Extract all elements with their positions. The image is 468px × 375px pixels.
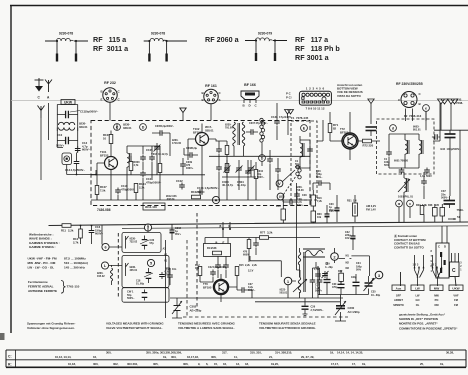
svg-text:16,: 16, xyxy=(93,355,97,359)
note bottom view text xyxy=(337,83,363,98)
svg-text:PO: PO xyxy=(435,298,439,302)
svg-text:C304: C304 xyxy=(151,153,158,156)
transistor T72 BF200 mixer xyxy=(344,135,357,148)
wire C307 xyxy=(234,132,262,156)
transistor T101 BF332 xyxy=(105,157,118,170)
svg-text:E: E xyxy=(101,98,103,102)
svg-text:14, 14, 14,35,: 14, 14, 14,35, xyxy=(346,351,363,355)
antenna terminal symbol mid xyxy=(180,108,186,115)
svg-text:600V: 600V xyxy=(243,254,249,257)
svg-text:RF 161: RF 161 xyxy=(205,84,217,88)
resistor R28 boxed xyxy=(440,208,445,217)
svg-text:R28: R28 xyxy=(428,204,433,207)
capacitor F2 bottom right xyxy=(424,168,430,175)
svg-text:40-12,7p: 40-12,7p xyxy=(158,153,168,156)
svg-text:GO: GO xyxy=(415,298,419,302)
antenna coil L1 9230-078 xyxy=(45,38,88,61)
svg-text:4,7p/500V~: 4,7p/500V~ xyxy=(71,168,86,172)
double terminal symbols right xyxy=(438,99,459,108)
LW tuned circuit box xyxy=(122,256,169,288)
svg-text:25,: 25, xyxy=(420,362,424,366)
CW1 trimmer box xyxy=(122,288,169,303)
svg-text:RF 232: RF 232 xyxy=(104,81,116,85)
wire socket RF230 drops xyxy=(406,109,413,122)
svg-text:50%: 50% xyxy=(356,269,362,272)
svg-text:435.01: 435.01 xyxy=(130,269,138,272)
antenna coil L2 9230-078 xyxy=(144,38,187,61)
svg-text:Ferritantenne: Ferritantenne xyxy=(28,280,48,284)
wire feed to oscillator xyxy=(250,256,281,277)
svg-text:VOLTMETRO ELETTRONICO GRUNDIG.: VOLTMETRO ELETTRONICO GRUNDIG. xyxy=(259,326,316,330)
wire test6 to MW box xyxy=(109,224,148,247)
svg-text:1001-P0L.01: 1001-P0L.01 xyxy=(398,195,414,199)
resistor R13 xyxy=(213,251,222,255)
wire C32 xyxy=(352,226,354,250)
svg-text:1 2 3 4 5 6: 1 2 3 4 5 6 xyxy=(306,87,325,91)
svg-text:A: A xyxy=(215,199,218,203)
svg-text:.00/134: .00/134 xyxy=(166,198,175,201)
capacitor C11 xyxy=(57,111,77,118)
svg-text:220: 220 xyxy=(435,204,440,207)
capacitor C20 xyxy=(317,180,324,186)
wire under T70 xyxy=(170,287,343,302)
svg-text:RF 2060 a: RF 2060 a xyxy=(205,35,240,44)
svg-text:2,2k: 2,2k xyxy=(245,264,250,267)
antenna terminal above mixer xyxy=(368,99,374,106)
svg-text:7436-086: 7436-086 xyxy=(97,208,111,212)
wire tuning bottom cluster xyxy=(318,248,376,295)
capacitor C110 xyxy=(115,188,121,195)
switch position note xyxy=(399,313,458,331)
svg-text:13,: 13, xyxy=(236,362,240,366)
filter F2 capacitor C1 xyxy=(386,150,392,157)
svg-text:470p/500V~: 470p/500V~ xyxy=(146,180,162,184)
svg-text:D: D xyxy=(142,126,145,130)
svg-text:MW -MW - PO - OM: MW -MW - PO - OM xyxy=(28,261,56,265)
svg-text:UKW: UKW xyxy=(64,100,73,104)
wire F2 to right xyxy=(426,103,440,141)
variable capacitor C200 AC xyxy=(335,298,346,318)
svg-text:220: 220 xyxy=(369,144,374,148)
test point 3 xyxy=(375,271,383,279)
svg-text:305,: 305, xyxy=(153,362,159,366)
svg-text:40-12,7p: 40-12,7p xyxy=(222,183,233,187)
svg-text:50%~: 50%~ xyxy=(316,176,323,179)
ground arrow symbol xyxy=(35,78,44,92)
capacitor C112 xyxy=(267,157,273,164)
ferrite rod coil xyxy=(110,268,112,281)
svg-text:100p/500V~: 100p/500V~ xyxy=(447,147,462,151)
svg-text:R15: R15 xyxy=(239,264,244,267)
feedthrough capacitor stack xyxy=(366,127,377,136)
label UKW box xyxy=(61,100,75,105)
padder capacitor C25r xyxy=(317,278,323,285)
transistor T102 BF183 xyxy=(196,133,209,146)
svg-text:503,01: 503,01 xyxy=(280,292,288,295)
wire bottom row FM box xyxy=(91,193,310,201)
border frame left xyxy=(10,6,12,334)
svg-text:Aus: Aus xyxy=(396,286,402,290)
wire local FM cluster xyxy=(127,146,160,200)
resistor R16 boxed xyxy=(311,195,316,206)
resistor R108 xyxy=(225,164,229,173)
capacitor C30r plates xyxy=(324,277,331,287)
svg-text:310, 310,: 310, 310, xyxy=(250,351,262,355)
svg-text:82: 82 xyxy=(333,126,337,130)
svg-text:35V+: 35V+ xyxy=(175,233,181,236)
svg-text:306,: 306, xyxy=(211,355,217,359)
svg-text:14,14,: 14,14, xyxy=(337,351,345,355)
CW1 capacitor xyxy=(142,290,148,301)
capacitor C16 xyxy=(89,228,95,235)
wire T102 xyxy=(188,124,216,191)
wire L to LW box xyxy=(109,265,122,285)
svg-text:6001-706.00: 6001-706.00 xyxy=(394,160,409,163)
table row C upper numbers xyxy=(106,351,454,359)
resistor R11 inline on bus xyxy=(62,224,71,228)
resistor R32 boxed xyxy=(339,273,344,281)
resistor R30 boxed xyxy=(311,211,316,222)
brace and part number 7761-110 xyxy=(61,281,66,294)
resistor R31 boxed xyxy=(353,203,358,216)
wire T101 connections xyxy=(97,124,117,201)
svg-text:3,3μ/400V~: 3,3μ/400V~ xyxy=(161,125,175,128)
svg-text:gezeichnete Stellung „Gerät Au: gezeichnete Stellung „Gerät Aus“ xyxy=(399,313,446,317)
test point D lower xyxy=(259,155,266,162)
svg-text:C102: C102 xyxy=(176,179,183,183)
variable capacitor C102 AE xyxy=(172,300,182,316)
capacitor C26b xyxy=(288,199,295,205)
electrolytic C30b xyxy=(325,211,330,219)
wave bands heading text xyxy=(29,232,60,249)
switch contact group LW xyxy=(414,255,425,286)
wire R14 C21 xyxy=(249,238,256,263)
label 9014/138 boxed xyxy=(204,244,231,257)
svg-text:C101 1,5p/500V~: C101 1,5p/500V~ xyxy=(197,186,219,190)
wire socket RF161 drop xyxy=(210,104,212,121)
input cell rails upper xyxy=(57,105,77,132)
svg-text:R72: R72 xyxy=(363,144,369,148)
capacitor C33b small xyxy=(315,272,321,279)
svg-text:35V+: 35V+ xyxy=(329,209,335,212)
wire R10 C16 junctions xyxy=(81,226,103,245)
svg-text:6,8k: 6,8k xyxy=(422,204,427,207)
wire C24 C25 xyxy=(218,256,226,278)
measurement note french xyxy=(178,322,236,331)
trimmer component with adjuster xyxy=(62,153,72,165)
antenna symbol C lower xyxy=(38,106,45,119)
feedthrough capacitor C37 xyxy=(444,196,456,208)
svg-text:7,2k: 7,2k xyxy=(317,200,322,203)
filter F1 capacitor C1 xyxy=(307,147,313,154)
svg-text:R32: R32 xyxy=(338,270,343,273)
wire right column xyxy=(426,121,460,222)
svg-text:9,: 9, xyxy=(198,362,201,366)
resistor R104 xyxy=(134,184,138,193)
svg-text:VALVE VOLTMETER WITHOUT SIGNAL: VALVE VOLTMETER WITHOUT SIGNAL. xyxy=(106,326,163,330)
svg-text:9230-078: 9230-078 xyxy=(59,32,73,36)
oscillator coil L101 xyxy=(127,153,131,167)
svg-text:314, 308,310,: 314, 308,310, xyxy=(275,351,292,355)
svg-text:P C!: P C! xyxy=(286,96,292,100)
svg-text:BF 166: BF 166 xyxy=(244,83,256,87)
svg-text:RF 230V/250/255: RF 230V/250/255 xyxy=(396,82,423,86)
trimmer C103 xyxy=(224,166,231,173)
band names column LW xyxy=(415,294,420,307)
wire from terminal xyxy=(182,115,184,121)
svg-text:FERRITE AERIAL: FERRITE AERIAL xyxy=(28,285,54,289)
capacitor C26 xyxy=(302,303,309,313)
svg-text:R14/138: R14/138 xyxy=(207,247,217,250)
svg-text:16,: 16, xyxy=(223,362,227,366)
svg-text:2,2k: 2,2k xyxy=(139,185,145,189)
filter F2 box xyxy=(377,119,435,174)
capacitor C31r plates xyxy=(338,281,345,291)
svg-text:7509-: 7509- xyxy=(457,208,464,212)
svg-text:51: 51 xyxy=(457,215,461,219)
svg-text:10,12, 13,14,: 10,12, 13,14, xyxy=(55,355,72,359)
band switch label UKW xyxy=(449,285,463,291)
svg-text:17,17,: 17,17, xyxy=(331,362,339,366)
svg-text:300,: 300, xyxy=(93,362,99,366)
test point V xyxy=(276,180,283,187)
svg-text:d: d xyxy=(392,127,394,131)
svg-text:300,: 300, xyxy=(106,351,112,355)
wire wiper dashed IV xyxy=(284,176,297,195)
resistor R10 xyxy=(79,229,83,238)
svg-text:6,: 6, xyxy=(206,362,209,366)
svg-text:BF332: BF332 xyxy=(100,153,109,157)
resistor R107 xyxy=(95,186,99,195)
svg-text:FM 1,4V: FM 1,4V xyxy=(366,208,376,212)
trimmer C304b xyxy=(154,145,161,152)
transistor T70 BF195 xyxy=(215,281,228,294)
svg-text:17,: 17, xyxy=(352,362,356,366)
svg-text:19,: 19, xyxy=(440,362,444,366)
capacitor C12 xyxy=(75,146,81,153)
wire socket RF232 drop xyxy=(109,103,111,121)
test point A xyxy=(212,196,219,203)
svg-text:1,1n: 1,1n xyxy=(420,175,425,178)
capacitor C105 xyxy=(140,155,146,162)
trimmer C28r xyxy=(322,271,329,278)
MW capacitor C30 xyxy=(140,236,149,250)
svg-text:16V+: 16V+ xyxy=(345,237,351,240)
svg-text:LW - LW - GO - OL: LW - LW - GO - OL xyxy=(28,266,55,270)
svg-text:0,18μ/100V~: 0,18μ/100V~ xyxy=(213,266,228,269)
pcb ref box 9012 xyxy=(143,203,165,210)
svg-text:Voltmeter ohne Signal gemessen: Voltmeter ohne Signal gemessen. xyxy=(27,326,75,330)
capacitor C17 top xyxy=(421,179,427,186)
svg-text:303 304,: 303 304, xyxy=(127,362,138,366)
svg-text:11,: 11, xyxy=(234,355,238,359)
filter F2 coil 1 xyxy=(405,140,409,154)
svg-text:3...10p: 3...10p xyxy=(237,183,246,187)
svg-text:36,38,: 36,38, xyxy=(446,351,454,355)
wire mixer out xyxy=(350,112,380,160)
svg-text:RF 117 a: RF 117 a xyxy=(295,35,329,44)
variable capacitor C35 xyxy=(364,276,375,295)
svg-text:UKW -VHF - FM- FM: UKW -VHF - FM- FM xyxy=(28,257,57,261)
capacitor C10 xyxy=(57,137,77,144)
svg-text:R11: R11 xyxy=(61,229,66,233)
capacitor F2 right coupling xyxy=(432,134,440,140)
resistor R77 xyxy=(260,236,269,240)
svg-text:500V~: 500V~ xyxy=(257,176,265,179)
svg-text:51..60p: 51..60p xyxy=(136,283,145,286)
capacitor C21 xyxy=(253,241,259,248)
svg-text:160V+: 160V+ xyxy=(186,167,194,170)
resistor R12 xyxy=(198,267,202,276)
oscillator transformer lower winding xyxy=(298,277,300,293)
svg-text:GAMME D'ONDA :: GAMME D'ONDA : xyxy=(29,245,56,249)
padder capacitor C24r xyxy=(310,278,316,285)
svg-text:2,7k: 2,7k xyxy=(73,240,79,244)
svg-text:9230-079: 9230-079 xyxy=(258,32,272,36)
LW switch contact xyxy=(126,263,129,276)
resistor R29 xyxy=(420,206,424,215)
svg-text:500V+: 500V+ xyxy=(56,144,65,148)
svg-text:R19: R19 xyxy=(276,205,281,208)
svg-text:302,: 302, xyxy=(113,362,119,366)
band switch dashed line vertical xyxy=(186,240,188,318)
test point C xyxy=(114,124,121,131)
capacitor C106 xyxy=(149,155,155,162)
test point D xyxy=(140,124,147,131)
svg-text:D: D xyxy=(444,245,446,249)
svg-text:R31: R31 xyxy=(347,200,352,203)
resistor R14 vertical xyxy=(247,240,251,249)
parallel bus wire xyxy=(122,226,468,229)
svg-text:10p/500V~: 10p/500V~ xyxy=(85,110,99,114)
electrolytic C302 xyxy=(170,227,175,235)
test point d xyxy=(390,125,397,132)
svg-text:R29: R29 xyxy=(416,204,421,207)
svg-text:510 ... 1640(kHz): 510 ... 1640(kHz) xyxy=(64,261,88,265)
svg-text:19,20,: 19,20, xyxy=(271,362,279,366)
svg-text:500V+: 500V+ xyxy=(315,290,323,293)
oscillator transformer upper winding xyxy=(298,252,300,265)
FM tuner dashed enclosure 7436-086 xyxy=(91,121,310,206)
svg-text:VOLTAGES MEASURED WITH GRUNDIG: VOLTAGES MEASURED WITH GRUNDIG xyxy=(106,322,164,326)
oscillator transformer core xyxy=(304,252,305,292)
junction node 8 xyxy=(222,228,224,230)
svg-text:470p: 470p xyxy=(332,286,338,289)
svg-text:1 2 3: 1 2 3 xyxy=(413,263,419,267)
svg-text:600V~: 600V~ xyxy=(82,148,91,152)
MW switch contact xyxy=(126,236,129,249)
svg-text:RF 118 Ph b: RF 118 Ph b xyxy=(295,44,340,53)
wire osc feed xyxy=(297,238,319,299)
wire FM box inner rail left xyxy=(91,174,205,176)
svg-text:AC=290p: AC=290p xyxy=(348,310,360,314)
resistor R27 boxed xyxy=(433,208,438,217)
svg-text:015.02: 015.02 xyxy=(97,275,105,278)
svg-text:III: III xyxy=(398,202,401,206)
svg-text:87,5 ... 100MHz: 87,5 ... 100MHz xyxy=(64,257,86,261)
IF transformer 9230-791 winding 1 xyxy=(233,122,236,146)
capacitor C28 in F1 xyxy=(294,192,300,199)
svg-text:18,: 18, xyxy=(245,362,249,366)
svg-text:29, 27, 29,: 29, 27, 29, xyxy=(301,355,314,359)
band switch label MW xyxy=(430,285,443,291)
svg-text:57V+: 57V+ xyxy=(297,204,303,207)
input transformer winding row 2 xyxy=(59,128,75,131)
wire mid column x296 xyxy=(283,183,330,238)
svg-text:6: 6 xyxy=(104,246,106,250)
svg-text:F1 7276-445: F1 7276-445 xyxy=(291,116,309,120)
feedthrough capacitor E34 xyxy=(445,130,456,144)
wire left column joins xyxy=(67,153,96,175)
svg-text:SPENTO: SPENTO xyxy=(393,303,404,307)
wire bus to switch frame xyxy=(442,226,459,262)
coil tap chain xyxy=(260,118,265,142)
wire osc cluster xyxy=(288,248,320,303)
svg-text:2,2k: 2,2k xyxy=(68,229,74,233)
IF coil taps xyxy=(296,165,301,179)
IF transformer winding 2 xyxy=(242,122,245,146)
svg-text:OFF: OFF xyxy=(396,294,402,298)
oscillator test point 1 xyxy=(284,277,292,285)
capacitor C305 xyxy=(158,130,165,136)
switch mechanism small box xyxy=(450,262,460,277)
svg-text:ARRET: ARRET xyxy=(394,298,403,302)
svg-text:145 ... 290 kHz: 145 ... 290 kHz xyxy=(64,266,85,270)
horizontal separator line xyxy=(11,100,468,102)
wire cluster right of T102 xyxy=(216,139,227,200)
svg-text:038.01: 038.01 xyxy=(205,128,214,132)
test point IV xyxy=(277,193,284,200)
svg-text:791.00: 791.00 xyxy=(225,127,233,130)
wire antenna downleads xyxy=(41,103,49,180)
capacitor C12L xyxy=(274,119,280,126)
capacitor C24 xyxy=(215,263,221,270)
svg-text:II: II xyxy=(409,202,411,206)
trimmer C310 xyxy=(248,166,255,173)
capacitor C102 xyxy=(179,183,185,190)
svg-text:e: e xyxy=(425,107,427,111)
scan mark left edge xyxy=(0,333,5,340)
svg-text:UKW: UKW xyxy=(452,286,459,290)
svg-text:VISTA DA SOTTO: VISTA DA SOTTO xyxy=(337,94,362,98)
svg-text:D: D xyxy=(261,157,264,161)
band names column UKW xyxy=(453,294,459,307)
oscillator adjuster arrow xyxy=(293,279,307,292)
resistor R110 xyxy=(254,170,258,179)
measurement note german xyxy=(27,322,75,331)
svg-text:COMMUTATORE IN POSIZIONE „SPEN: COMMUTATORE IN POSIZIONE „SPENTO“ xyxy=(399,326,458,330)
svg-text:10n: 10n xyxy=(172,268,177,271)
antenna symbol A xyxy=(45,80,52,93)
svg-text:4,7k: 4,7k xyxy=(134,164,139,167)
svg-text:C28: C28 xyxy=(302,194,307,197)
wire node drops xyxy=(223,222,230,238)
svg-text:317,: 317, xyxy=(222,351,228,355)
wire trimmer row xyxy=(222,160,256,190)
capacitor C101 xyxy=(198,189,205,195)
wire second rail xyxy=(255,301,340,303)
svg-text:500V: 500V xyxy=(426,175,432,178)
svg-text:OL: OL xyxy=(416,303,420,307)
wire into mixer xyxy=(317,112,344,141)
wire T70 xyxy=(200,274,237,298)
svg-text:OM: OM xyxy=(434,303,438,307)
svg-text:801.01: 801.01 xyxy=(413,129,421,132)
svg-text:CONTATTI DA SOTTO: CONTATTI DA SOTTO xyxy=(394,245,425,249)
wire F1 internals xyxy=(300,136,310,168)
table row R numbers xyxy=(68,362,444,366)
svg-text:1,5p: 1,5p xyxy=(314,268,319,271)
